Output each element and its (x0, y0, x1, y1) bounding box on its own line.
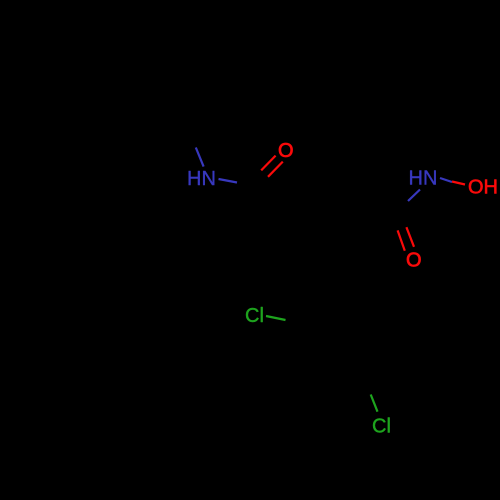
bond N2-O half near O (red) (452, 182, 465, 185)
bond N1-C(=O) half (blue) (219, 179, 238, 183)
C=O2 double bond half line A (red) (398, 230, 405, 250)
C=O1 double bond half line B (red) (268, 162, 283, 177)
C=O1 double bond half line A (red) (261, 156, 275, 171)
bond N1-CH2 half (blue) (196, 148, 204, 167)
svg-text:O: O (406, 250, 422, 272)
C=O2 double bond half line B (red) (406, 227, 414, 247)
bond N2-O half near N (blue) (440, 178, 452, 182)
svg-text:OH: OH (468, 177, 498, 199)
svg-text:HN: HN (187, 168, 216, 190)
bond Cl2-ring half (green) (371, 395, 378, 412)
bond N2-C half (blue) (408, 190, 420, 202)
svg-text:Cl: Cl (372, 416, 391, 438)
svg-text:O: O (278, 140, 294, 162)
svg-text:Cl: Cl (245, 305, 264, 327)
bond Cl1-ring half (green) (266, 316, 286, 320)
svg-text:HN: HN (409, 168, 438, 190)
